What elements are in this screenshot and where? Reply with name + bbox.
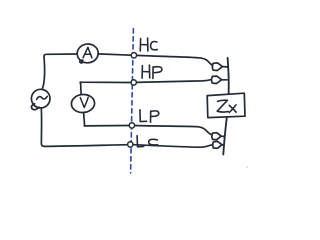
label HP [142, 65, 162, 78]
wire ammeter to HC node [98, 54, 131, 55]
wire voltmeter bottom stub [84, 113, 85, 126]
ac source G1 [30, 88, 51, 110]
label HC [140, 38, 157, 51]
wire LC node to plug [133, 145, 213, 148]
connector plug LP [212, 133, 224, 140]
wire source bottom to LC node [41, 108, 127, 146]
wire source top to ammeter [42, 54, 77, 89]
node HP [131, 80, 136, 85]
wire voltmeter top stub [80, 83, 83, 94]
node HC [131, 53, 136, 58]
connector plug LC [213, 141, 224, 148]
connector plug HP [212, 76, 227, 83]
smudge dot [246, 166, 248, 168]
connector plug HC [212, 63, 227, 71]
voltmeter V1 [71, 94, 95, 114]
wire HC node to plug [137, 55, 213, 65]
wire HP to node [80, 81, 131, 84]
label LC [137, 136, 158, 147]
DUT box Zx [207, 93, 245, 117]
wire LP to node [84, 125, 129, 127]
wire LP node to plug [135, 126, 212, 135]
label LP [140, 110, 159, 122]
guard line (blue dashed) [131, 29, 134, 173]
wire HP node to plug [136, 80, 210, 83]
node LP [129, 123, 134, 128]
ammeter A1 [76, 43, 99, 64]
DUT terminal bar [223, 58, 228, 154]
node LC [128, 142, 133, 147]
